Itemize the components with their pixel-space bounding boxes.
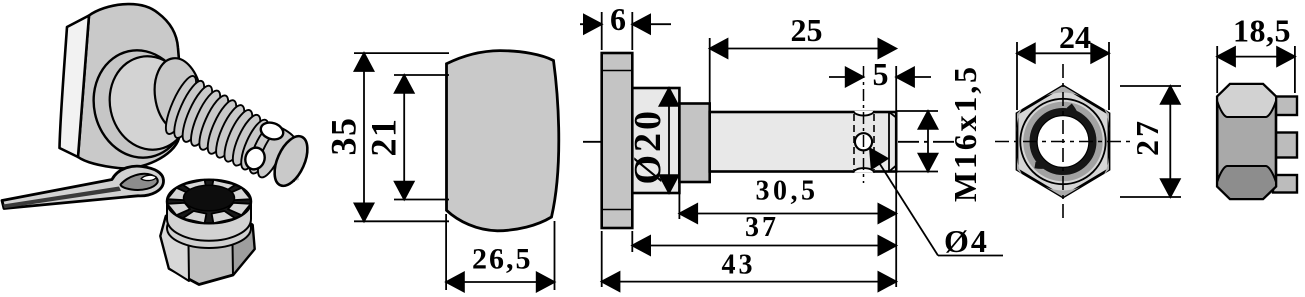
cotter pin eye dark inner — [121, 174, 158, 190]
nut thread outer band dark arc — [1035, 106, 1078, 166]
centerline — [583, 141, 956, 143]
castle nut crown tabs — [1273, 97, 1297, 193]
nut outer circle — [1020, 99, 1105, 184]
nut thread outer band gray — [1027, 105, 1100, 178]
dim M16x1,5 — [896, 111, 938, 172]
castle nut 3d right face — [231, 209, 255, 275]
dim 43 — [602, 231, 897, 291]
nut centerlines — [995, 141, 1133, 143]
svg-text:30,5: 30,5 — [756, 176, 819, 207]
nut corner chamfers — [1046, 86, 1080, 96]
cylinder Ø20 — [632, 88, 679, 193]
bolt head barrel outline — [447, 51, 559, 231]
nut hole — [1037, 116, 1089, 168]
nut hexagon — [1017, 86, 1109, 197]
castle nut 3d base — [161, 206, 255, 285]
castle nut crown side band — [167, 202, 251, 241]
cross hole Ø4 — [855, 133, 872, 150]
dim 5 — [829, 68, 931, 87]
svg-text:21: 21 — [364, 118, 404, 157]
svg-text:Ø20: Ø20 — [627, 108, 669, 185]
dim 24 — [1017, 42, 1109, 110]
groove dashed lines — [853, 114, 855, 170]
svg-text:18,5: 18,5 — [1233, 13, 1291, 49]
dim 30,5 — [679, 185, 896, 223]
svg-text:6: 6 — [610, 1, 626, 37]
threaded shaft band — [164, 78, 284, 172]
cross hole top (oval) — [259, 120, 286, 142]
cross hole side — [242, 145, 267, 172]
dim 21 line — [394, 75, 449, 200]
castle nut crown teeth — [183, 180, 207, 192]
castle nut crown base ellipse — [167, 208, 251, 248]
bolt neck front face — [101, 49, 199, 158]
flange facet lines — [602, 70, 633, 72]
svg-text:43: 43 — [722, 250, 756, 281]
shaft end face — [268, 131, 314, 190]
bolt collar — [150, 55, 206, 135]
groove notches — [854, 111, 875, 116]
svg-text:M16x1,5: M16x1,5 — [947, 64, 983, 202]
dim Ø20 arrow — [660, 88, 679, 193]
collar — [679, 104, 709, 183]
svg-text:Ø4: Ø4 — [944, 223, 989, 259]
nut thread inner ring — [1033, 112, 1092, 171]
dim 37 — [632, 231, 896, 255]
hole centerline vertical — [863, 66, 865, 183]
dim 35 line — [354, 53, 449, 221]
castle nut 3d left face — [161, 207, 190, 282]
chamfer at shaft end — [888, 112, 890, 172]
bolt head 3d edge (white strip) — [60, 16, 90, 158]
castle nut top facet — [1217, 84, 1276, 117]
svg-text:27: 27 — [1129, 118, 1165, 156]
svg-text:26,5: 26,5 — [472, 243, 533, 276]
svg-text:37: 37 — [745, 212, 779, 243]
svg-text:5: 5 — [873, 56, 889, 92]
leader Ø4 — [870, 149, 1003, 256]
bolt neck base ellipse — [84, 42, 196, 167]
dim 26,5 line — [446, 214, 554, 292]
shaft smooth tip section — [279, 129, 299, 181]
svg-text:35: 35 — [324, 117, 364, 156]
flange (head edge-on) — [602, 53, 633, 228]
cotter pin lower tine dark strip — [3, 187, 121, 209]
svg-text:25: 25 — [791, 12, 823, 48]
castle nut crown hole — [184, 185, 235, 211]
dim 18,5 — [1217, 46, 1295, 93]
dim 27 — [1120, 86, 1181, 197]
svg-text:24: 24 — [1059, 19, 1091, 55]
thread rings — [160, 73, 289, 181]
castle nut body — [1217, 84, 1276, 199]
castle nut crown dark ring — [167, 180, 251, 224]
dim 6 — [580, 12, 671, 50]
shaft end extension line — [895, 66, 897, 287]
castle nut bottom facet — [1217, 166, 1276, 199]
cotter pin body and eye silhouette — [2, 166, 164, 208]
shaft — [710, 112, 897, 172]
bolt head 3d front face — [78, 4, 181, 168]
dim 25 — [710, 38, 897, 109]
cotter pin eye white notch — [141, 175, 156, 180]
